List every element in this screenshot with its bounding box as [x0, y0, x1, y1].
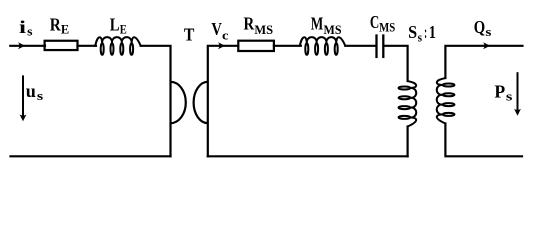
wire right S winding bottom stub and bottom-right wire: [445, 124, 522, 157]
capacitor C1 left plate: [375, 36, 377, 57]
transformer S left winding coil: [399, 81, 417, 127]
svg-text:1: 1: [429, 22, 436, 42]
svg-text::: :: [424, 22, 427, 42]
svg-text:E: E: [61, 22, 69, 36]
transformer T left arc: [171, 82, 186, 123]
svg-text:R: R: [244, 13, 255, 33]
transformer T right arc: [194, 82, 208, 123]
svg-text:S: S: [408, 22, 417, 42]
transformer T right winding vertical and top wire to R_MS: [208, 46, 238, 157]
arrow V_c: [218, 42, 225, 49]
wire between M_MS and C_MS: [345, 45, 375, 47]
svg-text:L: L: [110, 15, 120, 35]
svg-text:u: u: [26, 81, 36, 101]
svg-text:MS: MS: [254, 23, 273, 37]
svg-text:T: T: [184, 25, 195, 45]
svg-text:R: R: [50, 14, 61, 34]
capacitor C1 right plate: [382, 36, 384, 57]
wire top-left segment: [10, 45, 45, 47]
wire C_MS to S-transformer left winding: [384, 46, 407, 81]
inductor L2 coil (M_MS): [300, 37, 346, 55]
voltage arrow u_s: [22, 75, 24, 116]
svg-text:s: s: [506, 89, 513, 103]
svg-text:s: s: [37, 89, 43, 103]
resistor R2 body: [238, 41, 274, 51]
svg-text:s: s: [27, 25, 33, 39]
transformer S right winding coil: [437, 78, 455, 124]
power arrow P_s: [517, 72, 519, 110]
svg-text:V: V: [211, 19, 222, 39]
svg-text:M: M: [311, 14, 324, 34]
svg-text:E: E: [120, 23, 127, 37]
svg-text:MS: MS: [379, 21, 395, 35]
resistor R1 body: [45, 41, 78, 50]
inductor L1 coil: [95, 37, 141, 55]
current arrow i_s: [18, 42, 25, 49]
wire right S winding top stub and top-right wire: [445, 46, 522, 78]
wire bottom-middle segment: [208, 155, 408, 157]
svg-text:P: P: [494, 81, 505, 101]
svg-text:C: C: [370, 12, 379, 32]
svg-text:Q: Q: [474, 17, 485, 37]
svg-text:s: s: [418, 30, 423, 44]
arrow Q_s: [483, 42, 490, 49]
svg-text:s: s: [485, 25, 491, 39]
svg-text:MS: MS: [324, 23, 342, 37]
wire bottom-left segment: [11, 155, 171, 157]
wire between R_MS and M_MS: [274, 45, 301, 47]
wire L_E to transformer corner and left winding vertical: [141, 46, 171, 157]
svg-text:i: i: [19, 17, 26, 37]
wire left S winding bottom stub: [407, 127, 409, 157]
wire between R_E and L_E: [78, 45, 97, 47]
svg-text:c: c: [222, 28, 229, 42]
